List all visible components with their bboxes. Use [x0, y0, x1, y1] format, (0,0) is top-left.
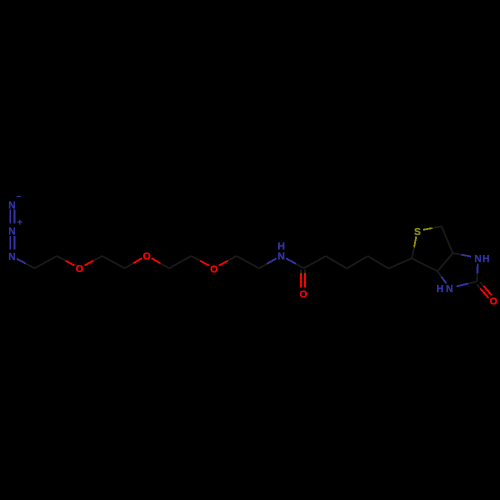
svg-text:H: H	[436, 284, 443, 295]
svg-text:N: N	[474, 254, 481, 265]
svg-text:N: N	[278, 252, 285, 263]
svg-text:H: H	[278, 242, 285, 253]
svg-text:−: −	[16, 192, 21, 201]
svg-text:O: O	[300, 290, 308, 301]
svg-text:N: N	[446, 284, 453, 295]
svg-text:O: O	[210, 264, 218, 275]
svg-text:O: O	[143, 251, 151, 262]
svg-text:N: N	[8, 201, 15, 212]
svg-text:O: O	[76, 264, 84, 275]
svg-text:N: N	[8, 252, 15, 263]
svg-text:O: O	[490, 297, 498, 308]
svg-text:N: N	[8, 227, 15, 238]
svg-text:H: H	[482, 254, 489, 265]
svg-text:+: +	[17, 217, 22, 227]
svg-text:S: S	[414, 227, 421, 238]
